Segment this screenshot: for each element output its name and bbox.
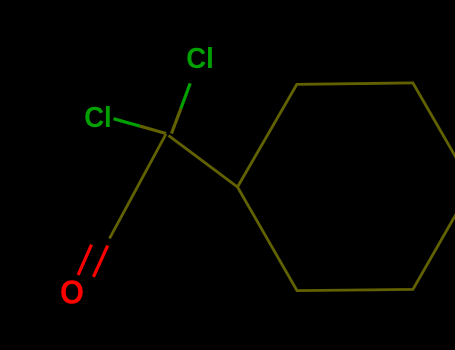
ring outline	[238, 83, 455, 291]
bond C2-Cl(left): green half	[114, 119, 140, 126]
bond C2-ring	[169, 136, 238, 188]
svg-text:O: O	[60, 273, 84, 310]
bond C2-Cl(left): carbon half	[140, 126, 166, 133]
svg-text:Cl: Cl	[186, 43, 214, 75]
svg-text:Cl: Cl	[84, 102, 112, 134]
benzene ring (plain hexagon, clipped at right edge)	[110, 83, 455, 291]
red C=O double bond	[78, 245, 108, 277]
bond C2-C1	[110, 134, 167, 239]
bond C2-Cl(top): green half	[181, 83, 190, 108]
bond C2-Cl(top): carbon half	[172, 108, 181, 133]
